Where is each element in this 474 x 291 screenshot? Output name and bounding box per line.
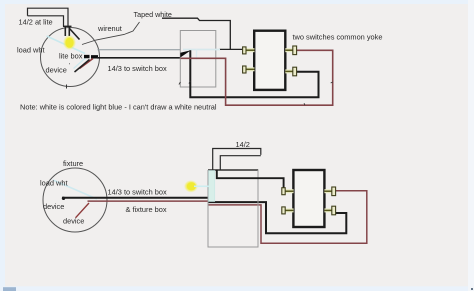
svg-text:device: device xyxy=(63,217,84,226)
svg-text:Note: white is colored light b: Note: white is colored light blue - I ca… xyxy=(20,102,217,111)
svg-text:load wht: load wht xyxy=(17,46,45,55)
svg-text:fixture: fixture xyxy=(63,159,83,168)
svg-text:14/3 to switch box: 14/3 to switch box xyxy=(108,64,167,73)
svg-text:load wht: load wht xyxy=(40,178,68,187)
svg-text:14/2: 14/2 xyxy=(236,140,250,149)
svg-text:': ' xyxy=(69,64,70,70)
svg-text:& fixture box: & fixture box xyxy=(126,205,167,214)
svg-text:14/3 to switch box: 14/3 to switch box xyxy=(108,188,167,197)
svg-text:14/2 at lite: 14/2 at lite xyxy=(19,17,53,26)
svg-text:Taped white: Taped white xyxy=(134,10,172,19)
svg-text:lite box: lite box xyxy=(59,52,83,61)
svg-text:wirenut: wirenut xyxy=(97,24,122,33)
svg-text:device: device xyxy=(43,202,64,211)
svg-text:device: device xyxy=(46,66,67,75)
svg-text:two switches common yoke: two switches common yoke xyxy=(293,32,383,41)
